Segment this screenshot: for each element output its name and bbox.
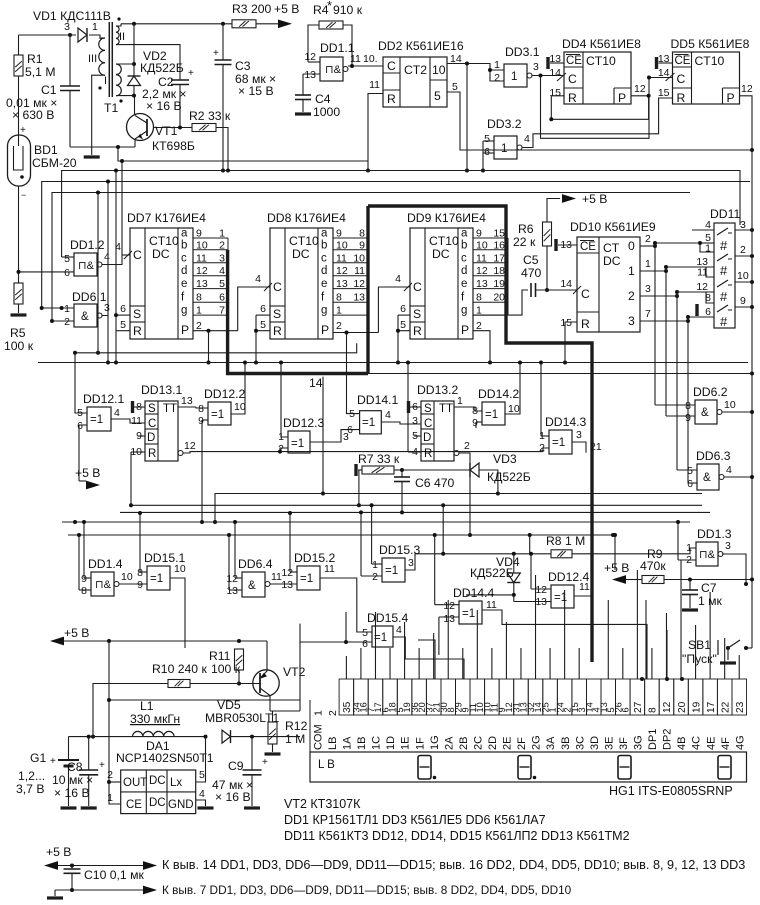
capacitor C4 [302, 74, 304, 95]
svg-text:GND: GND [168, 799, 194, 811]
svg-text:8: 8 [359, 228, 365, 240]
svg-text:7: 7 [645, 308, 651, 320]
svg-text:× 630 В: × 630 В [12, 108, 54, 122]
svg-text:R: R [148, 448, 156, 460]
wire VD1 to winding III [89, 35, 100, 39]
svg-text:R8 1 М: R8 1 М [546, 534, 585, 548]
battery rail [69, 736, 206, 738]
winding II [116, 26, 119, 32]
svg-text:S: S [133, 307, 141, 321]
svg-text:11: 11 [369, 79, 380, 91]
svg-text:11: 11 [324, 563, 335, 575]
+5V arrow top [278, 19, 292, 28]
svg-text:3G: 3G [633, 735, 645, 750]
svg-text:1 М: 1 М [285, 732, 305, 746]
svg-text:S: S [273, 307, 281, 321]
svg-text:9: 9 [472, 417, 478, 429]
svg-text:+5 В: +5 В [46, 845, 71, 859]
svg-text:14: 14 [309, 376, 323, 390]
svg-text:e: e [181, 278, 187, 290]
svg-text:DD11 К561КТ3 DD12, DD14, DD15: DD11 К561КТ3 DD12, DD14, DD15 К561ЛП2 DD… [284, 829, 630, 843]
long wire DD13.1 out12 [183, 448, 549, 453]
bus wire H y535 [68, 534, 613, 536]
svg-text:9: 9 [740, 295, 746, 307]
svg-text:5: 5 [260, 319, 266, 331]
comb feeder wires [418, 640, 435, 679]
svg-text:12: 12 [196, 265, 208, 277]
svg-text:4: 4 [396, 624, 402, 636]
svg-text:6: 6 [219, 292, 225, 304]
svg-text:R5: R5 [10, 326, 26, 340]
wire R8 riser to bus [529, 535, 531, 554]
svg-text:3E: 3E [603, 737, 615, 750]
svg-text:⊓&: ⊓& [325, 64, 342, 76]
svg-text:11: 11 [336, 252, 347, 264]
wires DD3.2 [483, 140, 494, 142]
svg-text:HG1 ITS-E0805SRNP: HG1 ITS-E0805SRNP [609, 784, 733, 798]
svg-text:CT: CT [603, 241, 620, 255]
svg-text:6: 6 [705, 306, 711, 318]
svg-text:4F: 4F [720, 737, 732, 750]
svg-text:DD14.3: DD14.3 [545, 415, 587, 429]
svg-text:8: 8 [81, 585, 87, 597]
svg-text:T1: T1 [104, 101, 118, 115]
svg-text:8: 8 [472, 405, 478, 417]
svg-text:1: 1 [686, 542, 692, 554]
svg-text:5: 5 [349, 408, 355, 420]
svg-text:13: 13 [443, 613, 455, 625]
svg-text:LB: LB [327, 737, 339, 750]
svg-text:CE: CE [675, 55, 691, 67]
svg-text:4: 4 [395, 273, 401, 285]
svg-text:4C: 4C [691, 736, 703, 750]
svg-text:R: R [387, 92, 396, 106]
svg-text:R: R [568, 91, 577, 105]
svg-text:R10 240 к: R10 240 к [152, 662, 207, 676]
svg-text:13: 13 [281, 579, 293, 591]
svg-text:VT2: VT2 [283, 665, 306, 679]
svg-text:R: R [581, 317, 590, 331]
svg-text:3: 3 [104, 302, 110, 314]
svg-text:21: 21 [590, 441, 602, 453]
svg-text:&: & [81, 311, 89, 323]
svg-text:4: 4 [255, 273, 261, 285]
riser x615 [614, 535, 616, 570]
svg-text:1E: 1E [400, 737, 412, 750]
svg-text:2: 2 [107, 769, 113, 781]
svg-text:10: 10 [476, 239, 488, 251]
winding polarity dots [117, 17, 120, 20]
svg-text:9: 9 [196, 228, 202, 240]
svg-text:2: 2 [464, 440, 470, 452]
wire R8 right to DD1.3 [572, 548, 696, 554]
svg-text:DD1.2: DD1.2 [70, 238, 105, 252]
svg-text:2G: 2G [531, 735, 543, 750]
svg-text:2: 2 [645, 233, 651, 245]
wire DD7 P to DD8 C [193, 330, 238, 332]
svg-text:1: 1 [219, 228, 225, 240]
svg-text:R: R [424, 448, 432, 460]
svg-text:CT10: CT10 [695, 54, 725, 68]
svg-text:1: 1 [628, 264, 635, 278]
wire DD7 R [116, 330, 130, 332]
svg-text:g: g [461, 305, 467, 317]
svg-text:14: 14 [549, 67, 561, 79]
svg-text:R3 200: R3 200 [232, 2, 272, 16]
svg-text:CE: CE [566, 55, 582, 67]
svg-text:DD1.3: DD1.3 [697, 527, 732, 541]
svg-text:DD10 К561ИЕ9: DD10 К561ИЕ9 [570, 220, 656, 234]
svg-text:c: c [321, 252, 327, 264]
svg-text:C9: C9 [228, 759, 244, 773]
svg-text:C: C [677, 72, 686, 86]
svg-text:P: P [181, 323, 189, 337]
riser x116 [115, 171, 117, 331]
svg-text:b: b [321, 239, 327, 251]
svg-text:DD15.3: DD15.3 [379, 543, 421, 557]
svg-text:6: 6 [120, 303, 126, 315]
svg-text:5: 5 [199, 769, 205, 781]
wire DD5 P out [740, 96, 753, 150]
svg-text:11: 11 [131, 415, 142, 427]
bottom +5V wire [44, 861, 58, 870]
svg-text:DC: DC [149, 775, 166, 787]
capacitor C8 [88, 737, 90, 770]
svg-text:=1: =1 [385, 565, 398, 577]
svg-text:7: 7 [219, 305, 225, 317]
wire OUT to COM rail [109, 699, 300, 701]
transistor VT2 [253, 670, 279, 696]
svg-text:II: II [119, 31, 125, 43]
svg-text:3C: 3C [574, 736, 586, 750]
svg-text:10: 10 [432, 63, 446, 77]
capacitor C2 [121, 45, 180, 80]
svg-text:C6 470: C6 470 [415, 476, 455, 490]
svg-text:12: 12 [443, 600, 455, 612]
svg-text:10: 10 [353, 252, 365, 264]
svg-text:3A: 3A [545, 736, 557, 750]
svg-text:#: # [720, 314, 728, 329]
svg-text:+5 В: +5 В [75, 466, 100, 480]
svg-text:14: 14 [658, 67, 670, 79]
svg-text:12: 12 [226, 573, 238, 585]
svg-text:К выв. 7 DD1, DD3, DD6—DD9, DD: К выв. 7 DD1, DD3, DD6—DD9, DD11—DD15; в… [162, 883, 572, 897]
svg-text:DP1: DP1 [647, 729, 659, 750]
svg-text:DD8 К176ИЕ4: DD8 К176ИЕ4 [267, 211, 346, 225]
wire tube to R5 [18, 186, 20, 283]
wire y594.9 stub [466, 594, 514, 596]
svg-text:10: 10 [121, 571, 133, 583]
vertical feeders DD10-DD11 to gates [654, 243, 656, 405]
svg-text:R: R [133, 324, 142, 338]
svg-text:+5 В: +5 В [604, 561, 629, 575]
display body [310, 752, 747, 782]
svg-text:2: 2 [628, 289, 635, 303]
svg-text:a: a [461, 228, 468, 240]
svg-text:8: 8 [685, 400, 691, 412]
bus wire H y493.5 [215, 494, 702, 523]
svg-text:DD6.1: DD6.1 [72, 290, 107, 304]
svg-text:4: 4 [726, 464, 732, 476]
svg-text:5: 5 [452, 81, 458, 93]
svg-text:C8: C8 [67, 760, 83, 774]
capacitor C9 [251, 737, 253, 770]
transformer T1 core [108, 22, 110, 97]
svg-text:#: # [720, 289, 728, 304]
resistor R3 [232, 20, 256, 28]
svg-text:4E: 4E [705, 737, 717, 750]
wires DD12.1 [75, 353, 87, 413]
svg-text:1000: 1000 [313, 105, 340, 119]
svg-text:13: 13 [226, 585, 238, 597]
svg-text:R: R [677, 91, 686, 105]
svg-text:DD4 К561ИЕ8: DD4 К561ИЕ8 [562, 37, 641, 51]
svg-text:R6: R6 [518, 222, 534, 236]
svg-text:10: 10 [336, 239, 348, 251]
svg-text:12: 12 [353, 278, 365, 290]
svg-text:TT: TT [163, 403, 177, 415]
svg-text:R1: R1 [27, 52, 43, 66]
node 3 junction [68, 33, 72, 37]
svg-text:3: 3 [576, 429, 582, 441]
svg-text:L В: L В [318, 759, 335, 771]
svg-text:III: III [88, 53, 97, 65]
wire DD9 S R [398, 314, 410, 316]
svg-text:R12: R12 [285, 719, 308, 733]
svg-text:10: 10 [737, 270, 749, 282]
svg-text:CE: CE [126, 799, 142, 811]
svg-text:2E: 2E [502, 737, 514, 750]
svg-text:3: 3 [740, 219, 746, 231]
svg-text:СБМ-20: СБМ-20 [32, 156, 77, 170]
svg-text:DD2 К561ИЕ16: DD2 К561ИЕ16 [378, 39, 464, 53]
svg-text:C: C [413, 280, 422, 294]
svg-text:23: 23 [735, 701, 746, 713]
svg-text:15: 15 [560, 317, 572, 329]
svg-text:8: 8 [648, 707, 659, 713]
resistor R12 [268, 722, 277, 744]
svg-text:2: 2 [494, 72, 500, 84]
svg-text:*: * [327, 0, 332, 13]
base wire VT1 [154, 127, 193, 129]
svg-text:4: 4 [199, 788, 205, 800]
svg-text:11: 11 [486, 599, 497, 611]
svg-text:КТ698Б: КТ698Б [152, 139, 195, 153]
svg-text:3,7 В: 3,7 В [16, 782, 44, 796]
svg-text:DD14.4: DD14.4 [453, 586, 495, 600]
svg-text:16: 16 [493, 239, 505, 251]
wires DD10 outputs [640, 245, 655, 247]
wire DD6.1 out [102, 316, 108, 363]
svg-text:d: d [181, 265, 187, 277]
svg-text:10: 10 [724, 399, 736, 411]
svg-text:13: 13 [181, 395, 193, 407]
svg-text:&: & [701, 407, 709, 419]
svg-text:14: 14 [560, 278, 572, 290]
svg-text:1G: 1G [429, 735, 441, 750]
svg-text:9: 9 [198, 415, 204, 427]
svg-text:10: 10 [174, 563, 186, 575]
svg-text:d: d [461, 265, 467, 277]
svg-text:DD12.3: DD12.3 [283, 416, 325, 430]
svg-text:5: 5 [120, 319, 126, 331]
wires DD1.2 [62, 256, 74, 258]
svg-text:DD6.2: DD6.2 [693, 385, 728, 399]
svg-text:11: 11 [350, 53, 361, 65]
svg-text:DD12.2: DD12.2 [204, 387, 246, 401]
resistor R2 [192, 124, 216, 132]
svg-text:1F: 1F [414, 737, 426, 750]
svg-text:C4: C4 [315, 92, 331, 106]
svg-text:6: 6 [400, 303, 406, 315]
svg-text:5: 5 [64, 253, 70, 265]
svg-text:2: 2 [372, 571, 378, 583]
svg-text:9: 9 [685, 412, 691, 424]
svg-text:КД522Б: КД522Б [140, 61, 184, 75]
ground bus under transformer [70, 146, 135, 148]
svg-text:e: e [461, 278, 467, 290]
winding I [116, 64, 121, 75]
svg-text:⊓&: ⊓& [78, 260, 95, 272]
svg-text:13: 13 [476, 278, 488, 290]
svg-text:27: 27 [633, 701, 644, 713]
svg-text:12: 12 [304, 51, 316, 63]
svg-text:20: 20 [493, 292, 505, 304]
svg-text:К выв. 14 DD1, DD3, DD6—DD9, D: К выв. 14 DD1, DD3, DD6—DD9, DD11—DD15; … [162, 858, 745, 872]
svg-text:19: 19 [691, 701, 702, 713]
svg-text:9: 9 [359, 239, 365, 251]
svg-text:C: C [581, 287, 590, 301]
svg-text:4: 4 [385, 409, 391, 421]
svg-text:2A: 2A [443, 736, 455, 750]
svg-text:+: + [262, 757, 268, 768]
svg-text:1: 1 [494, 59, 500, 71]
svg-text:1: 1 [501, 143, 507, 155]
svg-text:12: 12 [741, 83, 753, 95]
svg-text:COM: COM [312, 724, 324, 750]
svg-text:1C: 1C [371, 736, 383, 750]
svg-text:1: 1 [372, 559, 378, 571]
svg-text:4G: 4G [734, 735, 746, 750]
svg-text:DD14.2: DD14.2 [478, 387, 520, 401]
capacitor C1 [69, 35, 71, 86]
svg-text:1: 1 [107, 792, 113, 804]
svg-text:4: 4 [115, 241, 121, 253]
svg-text:9: 9 [476, 228, 482, 240]
svg-text:1D: 1D [385, 736, 397, 750]
ground symbol T1 [91, 147, 93, 155]
svg-text:=1: =1 [90, 414, 103, 426]
svg-text:13: 13 [353, 292, 365, 304]
svg-text:470к: 470к [640, 559, 666, 573]
svg-text:2C: 2C [472, 736, 484, 750]
riser rail to winding I [133, 24, 135, 64]
svg-text:3: 3 [645, 283, 651, 295]
svg-text:12: 12 [535, 584, 547, 596]
svg-text:+: + [50, 756, 56, 767]
svg-text:470: 470 [521, 266, 542, 280]
svg-text:10 мк ×: 10 мк × [52, 773, 93, 787]
svg-text:S: S [148, 403, 156, 415]
geiger tube BD1 [8, 135, 31, 186]
bus wire H y170.5 [62, 171, 740, 258]
svg-text:D: D [147, 432, 155, 444]
svg-text:100 к: 100 к [211, 662, 241, 676]
svg-text:g: g [181, 305, 187, 317]
bus wire H y161 [118, 147, 368, 161]
svg-text:#: # [720, 238, 728, 253]
bus wire H y512.4 [120, 511, 710, 513]
svg-text:1: 1 [312, 710, 324, 716]
svg-text:DD7 К176ИЕ4: DD7 К176ИЕ4 [127, 211, 206, 225]
wire DD8 P down to DD14.1 [347, 333, 360, 414]
svg-text:100 к: 100 к [4, 339, 34, 353]
svg-text:15: 15 [493, 228, 505, 240]
capacitor C3 [221, 22, 225, 26]
svg-text:9: 9 [336, 228, 342, 240]
svg-text:3: 3 [219, 252, 225, 264]
svg-text:1: 1 [278, 431, 284, 443]
wire DD9 P out [473, 331, 490, 363]
svg-text:2: 2 [539, 442, 545, 454]
diode VD3 [402, 469, 470, 471]
svg-text:13: 13 [304, 69, 316, 81]
svg-text:4: 4 [705, 219, 711, 231]
svg-text:2F: 2F [516, 737, 528, 750]
svg-text:&: & [703, 472, 711, 484]
svg-text:DD14.1: DD14.1 [357, 393, 399, 407]
svg-text:КД522Б: КД522Б [487, 470, 531, 484]
svg-text:DC: DC [292, 247, 310, 261]
svg-text:R7 33 к: R7 33 к [358, 452, 400, 466]
svg-text:P: P [321, 323, 329, 337]
svg-text:DC: DC [149, 797, 166, 809]
wires DD3.1 inputs [467, 64, 504, 71]
svg-text:12: 12 [476, 265, 488, 277]
svg-text:+: + [188, 68, 194, 79]
svg-text:5: 5 [687, 465, 693, 477]
svg-text:12: 12 [336, 265, 348, 277]
svg-text:12: 12 [634, 83, 646, 95]
svg-text:2: 2 [64, 316, 70, 328]
svg-text:P: P [618, 91, 626, 105]
digit glyphs [418, 756, 431, 780]
svg-text:5: 5 [219, 278, 225, 290]
svg-text:1,2...: 1,2... [18, 769, 45, 783]
svg-text:13: 13 [535, 596, 547, 608]
svg-text:330 мкГн: 330 мкГн [130, 712, 180, 726]
svg-text:R: R [413, 324, 422, 338]
wire DD4 R P loop [551, 96, 564, 120]
svg-text:8: 8 [196, 292, 202, 304]
svg-text:C7: C7 [701, 581, 717, 595]
svg-text:9: 9 [137, 579, 143, 591]
svg-text:+5 В: +5 В [64, 626, 89, 640]
svg-text:DD13.1: DD13.1 [141, 383, 183, 397]
svg-text:DD5 К561ИЕ8: DD5 К561ИЕ8 [671, 37, 750, 51]
bus wire H y362.5 [38, 362, 748, 364]
svg-text:6: 6 [77, 420, 83, 432]
svg-text:+5 В: +5 В [274, 2, 299, 16]
svg-text:VD1 КДС111В: VD1 КДС111В [33, 9, 111, 23]
svg-text:0: 0 [628, 239, 635, 253]
svg-text:13: 13 [336, 278, 348, 290]
wire to DA1 OUT [108, 641, 110, 782]
svg-text:d: d [321, 265, 327, 277]
svg-text:2: 2 [219, 239, 225, 251]
svg-text:R2 33 к: R2 33 к [189, 109, 231, 123]
wire top-left horizontal [19, 34, 77, 36]
